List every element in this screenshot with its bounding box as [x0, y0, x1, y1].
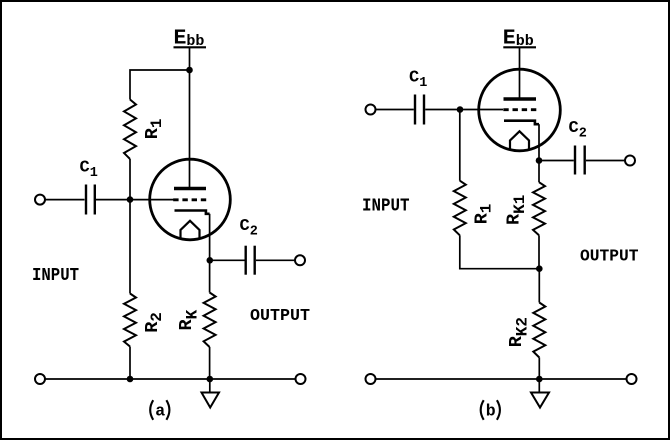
resistor RK (a) [204, 293, 216, 348]
label OUTPUT (a) [250, 307, 310, 326]
tube grid (b) [503, 108, 536, 111]
bottom rail wire (a) [46, 378, 296, 380]
label R2 (a) [142, 312, 166, 333]
svg-text:OUTPUT: OUTPUT [580, 248, 639, 267]
wire RK to rail (a) [209, 347, 211, 379]
node grid/R1/C1 junction (a) [127, 196, 134, 203]
resistor R1 (b) [454, 181, 466, 236]
input terminal (a) [35, 195, 45, 205]
wire junction to C2 (b) [539, 160, 574, 162]
ground symbol (a) [202, 393, 220, 408]
power rail bar E_bb (b) [503, 46, 536, 48]
input terminal (b) [366, 105, 376, 115]
resistor RK2 (b) [533, 303, 545, 358]
power label E_bb (b) [503, 27, 534, 51]
wire rail to ground (b) [538, 379, 540, 393]
label RK1 (b) [504, 195, 530, 225]
wire R1 bottom to RK1 column (b) [460, 235, 540, 268]
right rail terminal (a) [296, 374, 306, 384]
wire cathode to RK (a) [209, 214, 211, 293]
node cathode/C2/RK junction (a) [207, 257, 214, 264]
label (b) [481, 400, 500, 420]
wire input terminal to C1 (b) [376, 109, 414, 111]
capacitor C1 (b) [415, 95, 424, 125]
tube heater (a) [181, 221, 200, 239]
node grid/C1/R1 junction (b) [457, 106, 464, 113]
svg-text:INPUT: INPUT [32, 266, 79, 286]
resistor RK1 (b) [533, 182, 545, 235]
capacitor C1 (a) [86, 185, 95, 215]
wire cathode to RK1 (b) [538, 124, 540, 182]
tube cathode (a) [175, 211, 210, 214]
wire C1 to grid (b) [425, 109, 503, 111]
wire R1 bottom to grid node (a) [129, 159, 131, 200]
power label E_bb (a) [174, 27, 205, 51]
label OUTPUT (b) [580, 248, 639, 267]
output terminal (a) [295, 255, 305, 265]
tube cathode (b) [504, 121, 539, 125]
wire C1 to grid (a) [96, 199, 174, 201]
wire RK1 bottom to junction (b) [538, 235, 540, 268]
capacitor C2 (b) [575, 146, 585, 175]
node rail/RK/ground junction (a) [207, 376, 214, 383]
resistor R1 (a) [124, 100, 136, 160]
node R1/RK1/RK2 junction (b) [536, 265, 543, 272]
tube plate (a) [174, 187, 206, 190]
wire C2 to output terminal (b) [586, 160, 624, 162]
label INPUT (b) [362, 196, 410, 216]
tube envelope V1 (a) [150, 159, 231, 240]
wire rail to ground (a) [209, 379, 211, 393]
wire grid node to R2 (a) [129, 200, 131, 294]
bottom rail wire (b) [376, 378, 626, 380]
label R1 (b) [472, 204, 496, 225]
tube grid (a) [173, 198, 206, 201]
svg-text:b: b [486, 402, 496, 421]
node Ebb/R1 junction (a) [186, 67, 193, 74]
ground symbol (b) [531, 393, 549, 408]
node cathode/C2/RK1 junction (b) [536, 157, 543, 164]
label RK2 (b) [506, 317, 532, 347]
label INPUT (a) [32, 266, 79, 286]
node rail/RK2/ground junction (b) [536, 376, 543, 383]
left rail terminal (a) [35, 374, 45, 384]
svg-text:a: a [155, 402, 165, 421]
capacitor C2 (a) [246, 246, 255, 275]
resistor R2 (a) [124, 294, 136, 347]
label RK (a) [176, 309, 202, 330]
wire Ebb bar to tube plate (b) [519, 48, 521, 99]
wire RK2 to rail (b) [538, 358, 540, 380]
svg-text:OUTPUT: OUTPUT [250, 307, 310, 326]
label C2 (b) [569, 119, 587, 142]
wire junction to RK2 (b) [538, 269, 540, 303]
power rail bar E_bb (a) [174, 46, 207, 48]
label R1 (a) [142, 118, 166, 139]
wire input terminal to C1 (a) [46, 199, 85, 201]
label C1 (a) [80, 159, 98, 182]
wire junction down to R1 (b) [459, 110, 461, 181]
output terminal (b) [625, 156, 635, 166]
label C1 (b) [409, 69, 427, 92]
left rail terminal (b) [366, 374, 376, 384]
wire R2 to rail (a) [129, 347, 131, 380]
wire Ebb junction to R1 top (a) [130, 70, 190, 100]
wire C2 to output terminal (a) [256, 259, 295, 261]
tube heater (b) [510, 131, 529, 149]
label (a) [150, 400, 169, 420]
node rail/R2 junction (a) [127, 376, 134, 383]
wire Ebb bar to tube plate (a) [189, 48, 191, 189]
tube plate (b) [504, 97, 537, 100]
svg-text:INPUT: INPUT [362, 196, 410, 216]
label C2 (a) [240, 217, 258, 240]
wire junction to C2 (a) [210, 259, 245, 261]
right rail terminal (b) [627, 374, 637, 384]
tube envelope V2 (b) [479, 69, 561, 151]
